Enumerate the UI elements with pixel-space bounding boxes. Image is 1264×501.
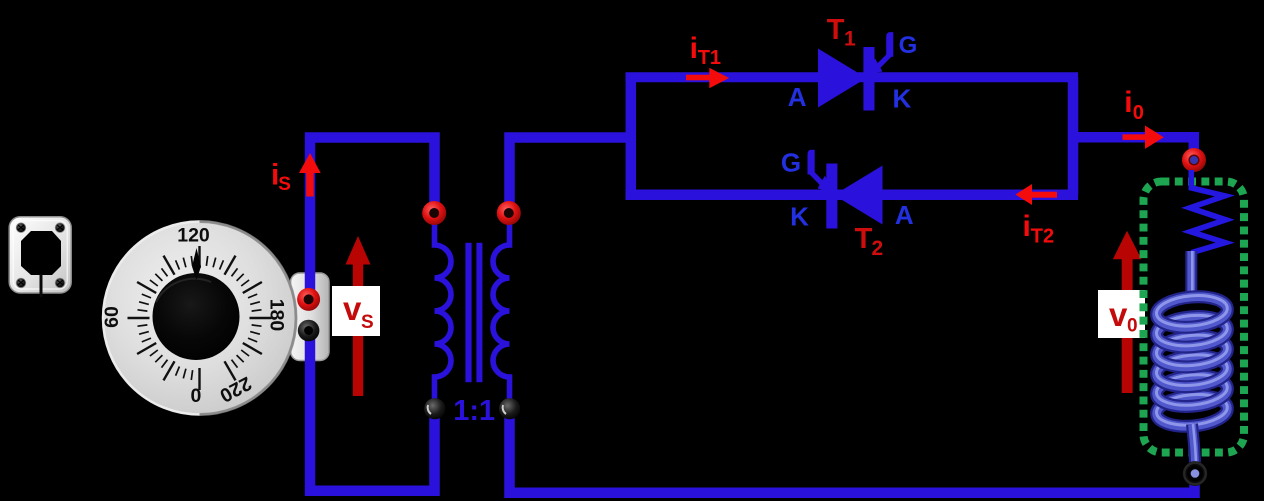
wire: junction vertical left [626, 77, 637, 195]
thyristor T1 triangle [818, 49, 867, 108]
dial pointer [192, 248, 201, 280]
thyristor T2 gate arrowhead [818, 176, 833, 192]
load inductor coil [1155, 293, 1228, 429]
svg-text:S: S [361, 312, 374, 333]
primary bottom terminal (black) [424, 398, 445, 419]
transformer core line left [465, 243, 471, 382]
outlet screw top-right [55, 223, 65, 233]
wire: secondary bottom rail to load [510, 408, 1195, 493]
thyristor T2 triangle [834, 166, 883, 225]
load red terminal [1182, 148, 1206, 172]
secondary top terminal (red) [497, 201, 521, 225]
svg-text:180: 180 [266, 299, 288, 332]
svg-text:A: A [895, 200, 914, 230]
outlet screw top-left [16, 223, 26, 233]
primary top terminal (red) [422, 201, 446, 225]
load inductor bottom lead [1192, 424, 1196, 468]
wall outlet plate [9, 217, 71, 293]
arrow vS [346, 236, 371, 396]
svg-text:v: v [1109, 296, 1128, 333]
transformer secondary winding [493, 213, 510, 409]
wire: source loop bottom [310, 330, 435, 491]
svg-text:1:1: 1:1 [453, 395, 495, 427]
svg-text:T2: T2 [1031, 226, 1054, 248]
svg-text:i: i [1124, 86, 1132, 119]
svg-text:T: T [827, 14, 845, 46]
svg-text:120: 120 [177, 225, 210, 247]
svg-text:i: i [1023, 210, 1031, 243]
svg-text:v: v [343, 290, 362, 327]
svg-text:1: 1 [844, 27, 856, 50]
green dashed load outline [1144, 182, 1245, 453]
svg-text:T1: T1 [698, 47, 721, 69]
thyristor T1 cathode bar [863, 47, 874, 111]
wire: output to load terminal [1073, 137, 1194, 162]
transformer primary winding [435, 213, 452, 409]
svg-text:A: A [788, 82, 807, 112]
transformer core line right [476, 243, 482, 382]
load black terminal [1183, 461, 1208, 486]
svg-text:60: 60 [101, 306, 123, 328]
outlet screw bottom-left [16, 278, 26, 288]
thyristor T1 gate stub [886, 32, 893, 57]
outlet cord wire [40, 274, 43, 297]
load resistor [1190, 170, 1226, 253]
svg-text:G: G [899, 32, 918, 59]
svg-text:0: 0 [1127, 316, 1138, 337]
thyristor T1 gate lead [877, 55, 890, 68]
secondary bottom terminal (black) [499, 398, 520, 419]
arrow iS [299, 153, 321, 197]
svg-text:G: G [781, 148, 801, 178]
svg-text:i: i [690, 32, 698, 65]
thyristor T1 gate arrowhead [867, 59, 883, 75]
white box for vS [332, 286, 380, 336]
svg-text:2: 2 [872, 237, 884, 260]
arrow iT1 [686, 68, 729, 89]
dial tick marks [128, 246, 272, 390]
thyristor T2 cathode bar [826, 164, 837, 229]
wire: source loop top [310, 138, 435, 301]
wire: thyristor top branch [626, 72, 1079, 82]
svg-text:0: 0 [190, 385, 201, 407]
variac dial body [103, 222, 296, 415]
white box for v0 [1098, 290, 1145, 338]
wire: thyristor bottom branch [626, 190, 1079, 201]
wire: secondary top to junction [510, 138, 631, 215]
outlet socket hole [21, 231, 61, 275]
outlet screw bottom-right [55, 278, 65, 288]
wire: junction vertical right [1068, 77, 1079, 195]
svg-text:K: K [790, 201, 809, 231]
dial knob [153, 273, 240, 360]
arrow v0 [1113, 231, 1142, 393]
thyristor T2 gate stub [808, 150, 815, 175]
connector red terminal [297, 288, 320, 311]
variac connector block [291, 273, 329, 361]
svg-text:T: T [855, 223, 873, 255]
svg-text:S: S [278, 174, 291, 195]
svg-text:K: K [893, 84, 912, 114]
arrow iT2 [1015, 184, 1057, 205]
svg-text:0: 0 [1133, 102, 1144, 124]
load inductor top lead [1191, 251, 1192, 296]
thyristor T2 gate lead [811, 173, 824, 186]
connector black terminal [298, 320, 320, 342]
arrow i0 [1123, 126, 1164, 149]
